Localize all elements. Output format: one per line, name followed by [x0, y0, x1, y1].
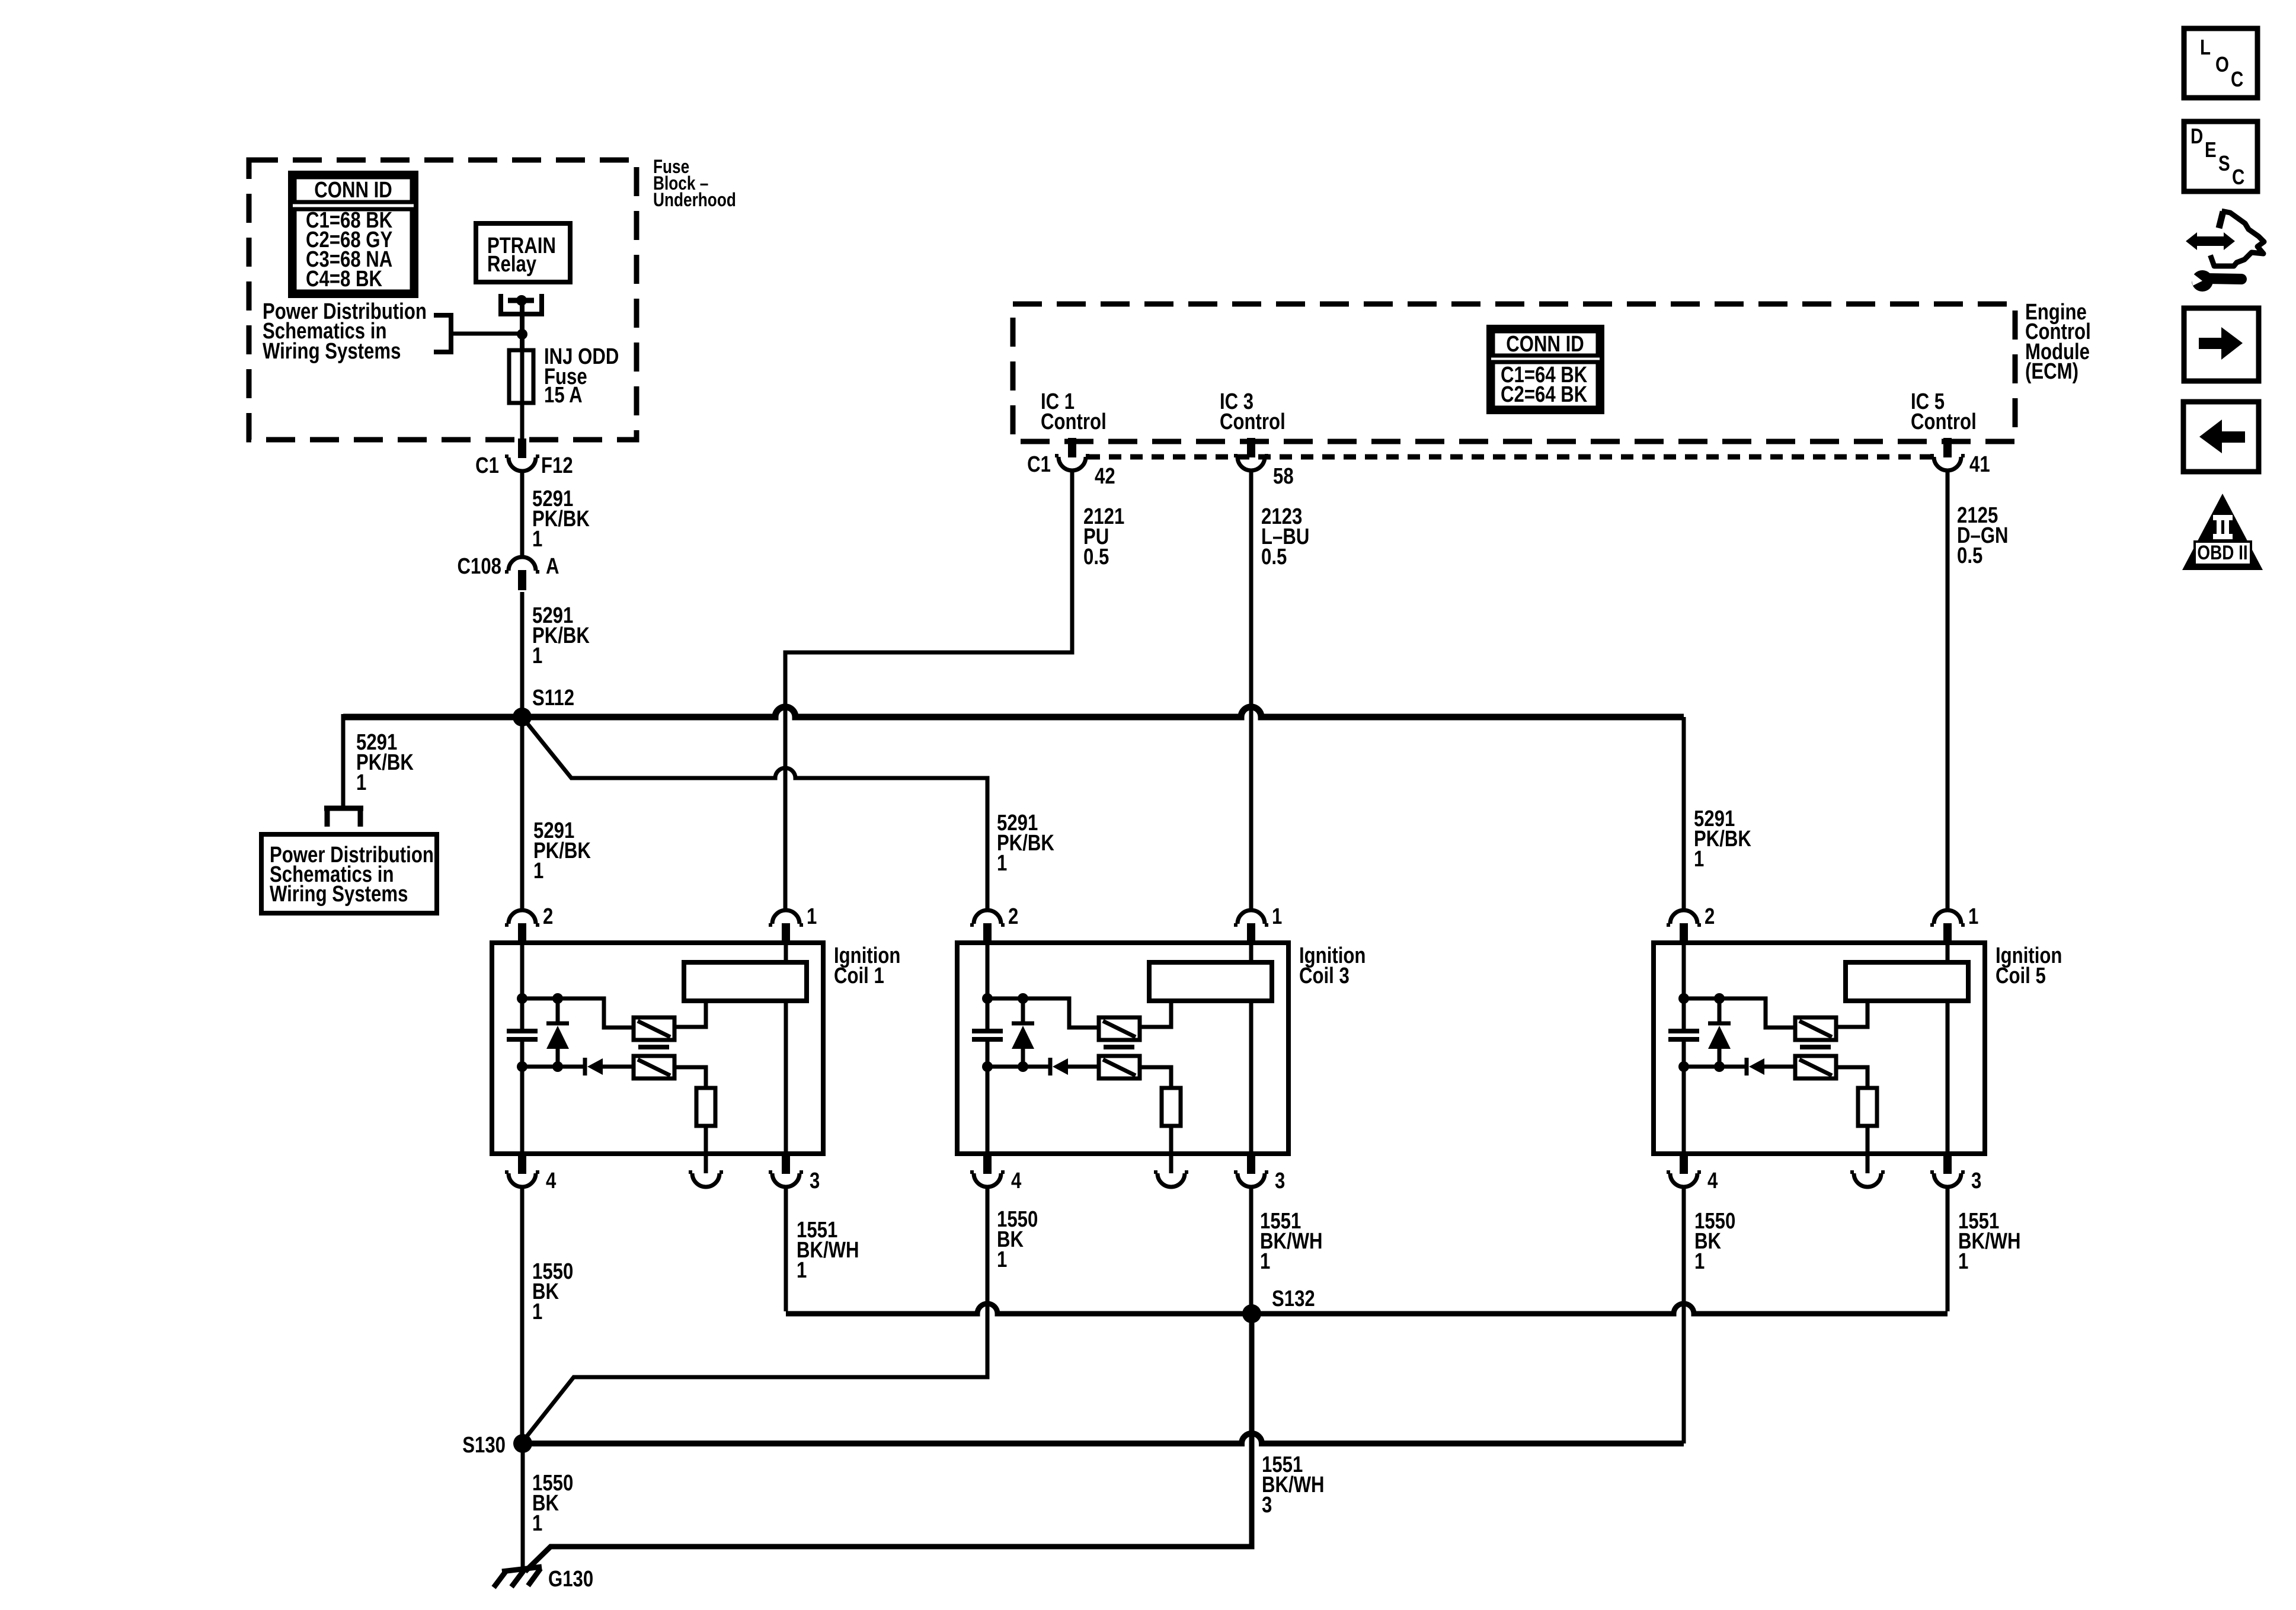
svg-text:C108: C108: [458, 554, 501, 579]
wire 1551 BK/WH coil1 pin3: [784, 1186, 788, 1311]
ground G130: [502, 1567, 542, 1571]
svg-text:C2=64 BK: C2=64 BK: [1501, 382, 1587, 407]
splice S112: [513, 708, 532, 726]
coil 5 internal left rail: [1682, 945, 1686, 1029]
wire 5291 PK/BK fuse block to C108: [520, 470, 525, 557]
svg-text:42: 42: [1095, 464, 1115, 489]
svg-text:D: D: [2191, 124, 2203, 148]
svg-text:Coil 1: Coil 1: [834, 964, 884, 988]
fuse block underhood dashed box: [249, 160, 637, 440]
svg-text:0.5: 0.5: [1957, 543, 1982, 568]
svg-text:F12: F12: [541, 453, 573, 478]
junction node power distribution tap: [517, 329, 527, 340]
coil 1 pin 1 connector: [772, 910, 800, 924]
svg-text:Relay: Relay: [487, 252, 537, 277]
coil 1 spark output wire: [704, 1126, 708, 1173]
svg-text:1: 1: [532, 527, 542, 552]
icon arrow left: [2183, 402, 2259, 472]
svg-text:1: 1: [797, 1258, 807, 1283]
coil 5 top feed wire: [1684, 998, 1795, 1028]
coil 5 capacitor: [1668, 1029, 1699, 1033]
PTRAIN relay box: [476, 223, 570, 282]
coil 1 core: [638, 1045, 669, 1049]
coil 3 pin 1 connector: [1237, 910, 1265, 924]
svg-text:4: 4: [1707, 1169, 1718, 1193]
svg-text:C4=8 BK: C4=8 BK: [306, 267, 382, 292]
coil 1 node top: [517, 993, 527, 1004]
svg-text:15 A: 15 A: [544, 383, 583, 408]
svg-text:1: 1: [1260, 1249, 1270, 1274]
connector C1 F12: [518, 438, 526, 458]
coil 1 pin1 internal wire: [784, 944, 788, 962]
svg-text:Control: Control: [1220, 409, 1285, 434]
wire 1550 BK coil1 pin4 to S130: [520, 1186, 525, 1443]
svg-text:C: C: [2232, 165, 2244, 188]
coil 1 capacitor: [507, 1029, 538, 1033]
svg-text:1: 1: [1272, 904, 1282, 929]
icon service vehicle with wrench: [2186, 232, 2235, 250]
coil 5 spark output connector: [1854, 1173, 1881, 1187]
coil 5 bottom row wire: [1684, 1065, 1745, 1069]
coil 1 bottom row wire: [522, 1065, 583, 1069]
svg-text:1: 1: [356, 770, 366, 795]
coil 1 pin 4 connector: [518, 1154, 526, 1174]
wire 2125 D-GN ECM 41 to coil5 pin1: [1946, 471, 1950, 911]
coil 3 top feed wire: [987, 998, 1099, 1028]
coil 5 core: [1800, 1045, 1831, 1049]
coil 5 pin 1 connector: [1934, 910, 1961, 924]
svg-text:2: 2: [543, 904, 553, 929]
coil 1 pin3 internal wire: [784, 1001, 788, 1154]
coil 3 spark output connector: [1157, 1173, 1185, 1187]
power distribution note box: [261, 834, 437, 913]
wire 1551 BK/WH row: [786, 1304, 1948, 1314]
coil 5 spark output wire: [1866, 1126, 1870, 1173]
svg-text:E: E: [2205, 137, 2217, 161]
ECM C1 connector dotted line: [1088, 454, 1932, 460]
svg-text:3: 3: [1275, 1169, 1285, 1193]
svg-text:Wiring Systems: Wiring Systems: [263, 339, 401, 364]
svg-text:1: 1: [532, 644, 542, 668]
wire 1550 BK S130 row to coil5 pin4: [523, 1433, 1684, 1443]
coil 3 pin1 internal wire: [1249, 944, 1253, 962]
svg-text:(ECM): (ECM): [2025, 359, 2078, 384]
trunk wire 5291 horizontal from S112 to coil5: [343, 707, 1684, 717]
svg-text:4: 4: [546, 1169, 557, 1193]
svg-text:0.5: 0.5: [1261, 545, 1287, 569]
svg-text:Coil 3: Coil 3: [1299, 964, 1350, 988]
svg-text:C1: C1: [1027, 452, 1051, 477]
svg-text:S112: S112: [532, 686, 574, 710]
coil 3 pin 2 connector: [974, 910, 1001, 924]
splice S132: [1242, 1304, 1261, 1323]
wire 5291 S112 to coil3 pin2 (diagonal): [522, 717, 987, 911]
ECM pin 42 connector C1: [1068, 438, 1076, 457]
coil 5 pin 3 connector: [1943, 1154, 1952, 1174]
coil 3 capacitor: [972, 1029, 1003, 1033]
svg-text:1: 1: [532, 1511, 542, 1536]
ECM pin 41 connector: [1943, 438, 1952, 457]
off-page hook connector: [324, 806, 363, 811]
coil 1 pin 3 connector: [782, 1154, 790, 1174]
svg-text:1: 1: [997, 1247, 1007, 1272]
wire 1550 BK coil3 pin4 to S130: [524, 1186, 987, 1440]
svg-text:1: 1: [1958, 1249, 1968, 1274]
svg-text:2: 2: [1008, 904, 1018, 929]
icon LOC: [2184, 28, 2257, 98]
svg-text:Coil 5: Coil 5: [1996, 964, 2046, 988]
svg-text:3: 3: [1971, 1169, 1981, 1193]
svg-text:1: 1: [533, 859, 543, 884]
coil 5 secondary winding: [1795, 1056, 1836, 1078]
ignition coil 3 box: [957, 943, 1288, 1154]
coil 5 primary winding: [1795, 1017, 1836, 1040]
coil 1 spark output connector: [692, 1173, 720, 1187]
wire fuse to connector C1 F12: [520, 403, 525, 438]
svg-text:1: 1: [1968, 904, 1978, 929]
wire 1551 BK/WH coil3 pin3 to S132: [1249, 1186, 1253, 1314]
svg-text:1: 1: [1694, 847, 1704, 872]
svg-text:Wiring Systems: Wiring Systems: [270, 882, 408, 907]
svg-text:4: 4: [1011, 1169, 1022, 1193]
coil 3 winding output wires: [1140, 1002, 1171, 1027]
wire contact to fuse: [520, 300, 525, 350]
svg-text:Control: Control: [1041, 409, 1107, 434]
coil 5 pin 4 connector: [1680, 1154, 1688, 1174]
svg-text:OBD II: OBD II: [2197, 541, 2247, 564]
svg-text:41: 41: [1969, 452, 1990, 477]
coil 1 pin 2 connector: [509, 910, 536, 924]
coil 5 pin3 internal wire: [1946, 1001, 1950, 1154]
coil 3 module block: [1149, 962, 1272, 1001]
icon arrow right: [2184, 308, 2259, 381]
icon OBD II triangle: [2182, 494, 2263, 570]
svg-text:C: C: [2231, 67, 2243, 91]
wire 1551 BK/WH coil5 pin3: [1946, 1186, 1950, 1311]
coil 1 node bottom: [517, 1061, 527, 1072]
coil 3 bottom row wire: [987, 1065, 1048, 1069]
svg-text:1: 1: [997, 851, 1007, 876]
svg-text:1: 1: [532, 1299, 542, 1324]
engine control module dashed box: [1013, 304, 2015, 441]
svg-text:Underhood: Underhood: [653, 190, 736, 211]
coil 1 internal left rail: [520, 945, 525, 1029]
coil 5 zener diode: [1718, 998, 1722, 1023]
coil 5 node top: [1678, 993, 1689, 1004]
coil 3 node bottom: [982, 1061, 993, 1072]
svg-text:0.5: 0.5: [1083, 545, 1109, 569]
svg-text:S130: S130: [462, 1433, 506, 1458]
svg-text:CONN ID: CONN ID: [1506, 332, 1584, 357]
coil 5 winding output wires: [1836, 1002, 1868, 1027]
coil 3 internal left rail: [986, 945, 990, 1029]
wire 1550 BK coil5 pin4: [1682, 1186, 1686, 1443]
bracket to power distribution note: [434, 315, 451, 352]
wire 1551 BK/WH 3 S132 to ground: [525, 1314, 1252, 1571]
svg-text:L: L: [2200, 35, 2211, 59]
coil 1 zener diode: [556, 998, 560, 1023]
coil 3 diode: [1048, 1058, 1053, 1076]
coil 3 pin 4 connector: [983, 1154, 992, 1174]
coil 3 spark output wire: [1169, 1126, 1173, 1173]
coil 1 primary winding: [634, 1017, 674, 1040]
coil 3 pin3 internal wire: [1249, 1001, 1253, 1154]
wire 5291 S112 to coil1 pin2: [520, 721, 525, 911]
coil 5 diode: [1745, 1058, 1749, 1076]
svg-text:58: 58: [1273, 464, 1294, 489]
splice S130: [513, 1434, 532, 1453]
wire 2123 L-BU ECM 58 to coil3 pin1: [1249, 471, 1253, 911]
svg-text:S132: S132: [1272, 1286, 1315, 1311]
fuse INJ ODD 15A: [509, 350, 533, 403]
CONN ID table ECM: [1489, 327, 1602, 412]
CONN ID table fuse block: [290, 173, 416, 296]
wire 1550 BK S130 to ground G130: [521, 1443, 525, 1571]
coil 1 top feed wire: [522, 998, 634, 1028]
coil 3 core: [1104, 1045, 1134, 1049]
coil 3 resistor: [1162, 1088, 1181, 1126]
wire 5291 trunk corner to coil5 pin2: [1682, 717, 1686, 911]
svg-text:C1: C1: [475, 453, 499, 478]
svg-text:O: O: [2215, 52, 2229, 76]
coil 5 resistor: [1858, 1088, 1877, 1126]
coil 5 pin 2 connector: [1670, 910, 1697, 924]
connector C108 A: [509, 557, 536, 571]
icon DESC: [2184, 121, 2257, 191]
ignition coil 5 box: [1654, 943, 1985, 1154]
wire junction to bracket: [452, 332, 522, 336]
svg-text:3: 3: [810, 1169, 820, 1193]
coil 1 module block: [684, 962, 807, 1001]
coil 1 winding output wires: [674, 1002, 706, 1027]
coil 3 primary winding: [1099, 1017, 1140, 1040]
ECM pin 58 connector: [1247, 438, 1255, 457]
svg-text:1: 1: [1694, 1249, 1705, 1274]
coil 3 secondary winding: [1099, 1056, 1140, 1078]
svg-text:G130: G130: [548, 1567, 593, 1592]
wire 2121 PU ECM 42 to coil1 pin1: [785, 471, 1072, 911]
wire 5291 PK/BK C108 to S112: [520, 592, 525, 717]
svg-text:2: 2: [1705, 904, 1715, 929]
svg-text:1: 1: [807, 904, 817, 929]
coil 5 module block: [1846, 962, 1968, 1001]
svg-text:Control: Control: [1911, 409, 1977, 434]
coil 3 pin 3 connector: [1247, 1154, 1255, 1174]
ignition coil 1 box: [492, 943, 823, 1154]
coil 5 pin1 internal wire: [1946, 944, 1950, 962]
svg-text:A: A: [546, 554, 559, 579]
coil 1 resistor: [696, 1088, 715, 1126]
svg-text:3: 3: [1262, 1493, 1272, 1518]
relay contact: [501, 294, 542, 314]
coil 1 diode: [583, 1058, 587, 1076]
svg-text:CONN ID: CONN ID: [314, 178, 392, 203]
coil 5 node bottom: [1678, 1061, 1689, 1072]
coil 3 node top: [982, 993, 993, 1004]
svg-text:S: S: [2218, 151, 2230, 175]
coil 3 zener diode: [1021, 998, 1025, 1023]
wire S112 branch to power distribution note: [341, 714, 346, 808]
coil 1 secondary winding: [634, 1056, 674, 1078]
